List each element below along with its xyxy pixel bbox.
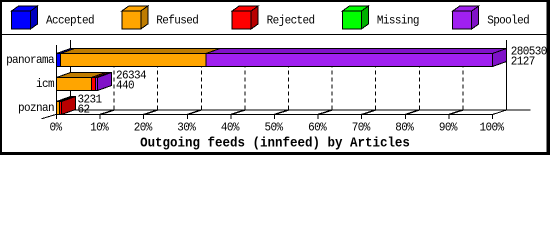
gridline diagonal 10% (100, 110, 114, 115)
100% depth diagonal (493, 110, 507, 115)
dashed gridline 40% (244, 50, 246, 111)
tick 30% (186, 115, 188, 120)
bar panorama segment purple (206, 49, 507, 67)
svg-text:icm: icm (36, 77, 55, 91)
back x-axis (71, 109, 531, 111)
dashed gridline 90% (462, 50, 464, 111)
legend cube Refused (122, 6, 148, 29)
bar poznan segment red (60, 97, 76, 115)
bar panorama segment orange (61, 49, 221, 67)
legend cube Accepted (12, 6, 38, 29)
svg-text:2127: 2127 (511, 55, 536, 69)
svg-text:50%: 50% (265, 121, 284, 135)
back y-axis (70, 40, 72, 110)
tick 40% (230, 115, 232, 120)
tick 0% (56, 115, 58, 120)
svg-text:60%: 60% (308, 121, 327, 135)
tick 20% (143, 115, 145, 120)
svg-text:40%: 40% (221, 121, 240, 135)
legend cube Spooled (453, 6, 479, 29)
gridline diagonal 40% (231, 110, 245, 115)
svg-text:0%: 0% (50, 121, 63, 135)
legend separator line (0, 34, 550, 36)
svg-text:panorama: panorama (6, 53, 55, 67)
tick 100% (492, 115, 494, 120)
outer border thick bottom edge (0, 152, 550, 154)
gridline diagonal 30% (187, 110, 201, 115)
dashed gridline 70% (375, 50, 377, 111)
tick 10% (99, 115, 101, 120)
bar icm segment red (92, 73, 110, 91)
svg-text:Missing: Missing (377, 14, 419, 28)
svg-text:62: 62 (78, 103, 91, 117)
svg-text:30%: 30% (177, 121, 196, 135)
svg-text:90%: 90% (439, 121, 458, 135)
svg-text:80%: 80% (395, 121, 414, 135)
gridline diagonal 50% (275, 110, 289, 115)
svg-text:Accepted: Accepted (46, 14, 94, 28)
dashed gridline 20% (157, 50, 159, 111)
tick 90% (448, 115, 450, 120)
svg-text:20%: 20% (134, 121, 153, 135)
svg-text:Spooled: Spooled (487, 14, 529, 28)
svg-text:poznan: poznan (18, 101, 54, 115)
gridline diagonal 90% (449, 110, 463, 115)
svg-text:Rejected: Rejected (267, 14, 315, 28)
bar poznan segment orange (57, 97, 74, 115)
bar icm segment purple (96, 73, 112, 91)
svg-text:100%: 100% (480, 121, 505, 135)
gridline diagonal 70% (362, 110, 376, 115)
dashed gridline 30% (200, 50, 202, 111)
tick 70% (361, 115, 363, 120)
svg-text:Refused: Refused (156, 14, 198, 28)
gridline diagonal 60% (318, 110, 332, 115)
front x-axis (57, 114, 493, 116)
outer border (1, 1, 549, 154)
dashed gridline 80% (418, 50, 420, 111)
bar icm segment orange (57, 73, 106, 91)
svg-text:440: 440 (116, 79, 135, 93)
back 100% line (506, 40, 508, 110)
outer border thick right edge (546, 0, 548, 155)
legend cube Missing (342, 6, 368, 29)
svg-text:Outgoing feeds (innfeed) by Ar: Outgoing feeds (innfeed) by Articles (140, 136, 410, 152)
dashed gridline 60% (331, 50, 333, 111)
tick 50% (274, 115, 276, 120)
front y-axis (56, 45, 58, 115)
svg-text:10%: 10% (90, 121, 109, 135)
svg-text:70%: 70% (352, 121, 371, 135)
tick 80% (404, 115, 406, 120)
dashed gridline 10% (113, 50, 115, 111)
dashed gridline 50% (288, 50, 290, 111)
gridline diagonal 20% (144, 110, 158, 115)
legend cube Rejected (232, 6, 258, 29)
gridline diagonal 80% (405, 110, 419, 115)
origin depth diagonal (42, 110, 71, 119)
tick 60% (317, 115, 319, 120)
bar panorama segment blue (57, 49, 75, 67)
